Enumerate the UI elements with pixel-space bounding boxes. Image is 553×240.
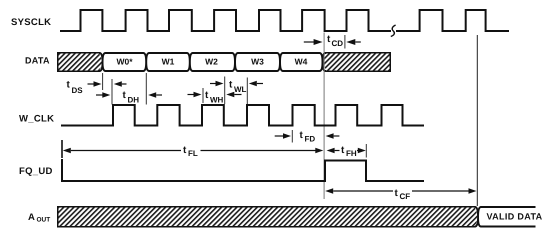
svg-text:DS: DS xyxy=(72,86,84,95)
svg-text:SYSCLK: SYSCLK xyxy=(11,17,51,28)
SYSCLK break squiggle xyxy=(391,25,396,37)
extension line wclk fall3 xyxy=(224,77,226,105)
tFL dimension xyxy=(61,140,63,158)
tFD dimension xyxy=(275,135,284,137)
DATA bus left edge xyxy=(57,52,59,72)
svg-text:CD: CD xyxy=(332,39,344,48)
tCD dimension xyxy=(304,41,315,43)
AOUT bus top rail xyxy=(58,207,536,217)
svg-text:DH: DH xyxy=(128,96,140,105)
DATA bus top rail xyxy=(58,53,390,62)
extension line wclk rise1 xyxy=(111,79,113,105)
svg-text:CF: CF xyxy=(400,192,411,201)
svg-text:A: A xyxy=(28,212,35,223)
svg-text:W_CLK: W_CLK xyxy=(19,114,54,125)
svg-text:FL: FL xyxy=(188,149,198,158)
DATA bus right edge xyxy=(389,52,391,72)
extension line wclk rise5 xyxy=(291,130,293,143)
svg-text:FD: FD xyxy=(305,135,316,144)
svg-text:FQ_UD: FQ_UD xyxy=(19,166,53,177)
svg-text:WH: WH xyxy=(210,96,224,105)
FQ_UD waveform xyxy=(62,159,424,181)
extension line wclk rise3 xyxy=(202,88,204,103)
svg-text:W0*: W0* xyxy=(116,57,133,67)
extension line fqud fall xyxy=(365,144,367,158)
extension line data X2 xyxy=(145,73,147,105)
AOUT bus left edge xyxy=(57,206,59,228)
SYSCLK waveform xyxy=(60,10,391,31)
svg-text:W4: W4 xyxy=(295,57,308,67)
DATA right invalid hatch xyxy=(324,54,390,71)
svg-text:W3: W3 xyxy=(251,57,264,67)
tDH dimension xyxy=(96,94,103,96)
AOUT hatch xyxy=(59,208,478,227)
svg-text:W2: W2 xyxy=(205,57,218,67)
svg-text:FH: FH xyxy=(346,149,357,158)
long extension line sysclk fall6 xyxy=(323,33,325,200)
extension line wclk rise4 xyxy=(246,78,248,105)
extension line sysclk rise7 xyxy=(344,35,346,49)
W_CLK waveform xyxy=(61,105,424,126)
tWL dimension xyxy=(210,83,216,85)
long extension line output change xyxy=(476,35,478,206)
AOUT bus bottom rail xyxy=(58,217,536,227)
tFH dimension xyxy=(327,148,335,153)
DATA left invalid hatch xyxy=(59,54,102,71)
tWH dimension xyxy=(188,94,195,96)
svg-text:W1: W1 xyxy=(162,57,175,67)
tCF dimension xyxy=(325,188,333,193)
svg-text:WL: WL xyxy=(234,85,247,94)
svg-text:VALID DATA: VALID DATA xyxy=(487,212,543,222)
extension line data X1 xyxy=(102,73,104,90)
svg-text:DATA: DATA xyxy=(25,56,50,66)
svg-text:OUT: OUT xyxy=(37,217,51,224)
DATA bus bottom rail xyxy=(58,62,390,71)
